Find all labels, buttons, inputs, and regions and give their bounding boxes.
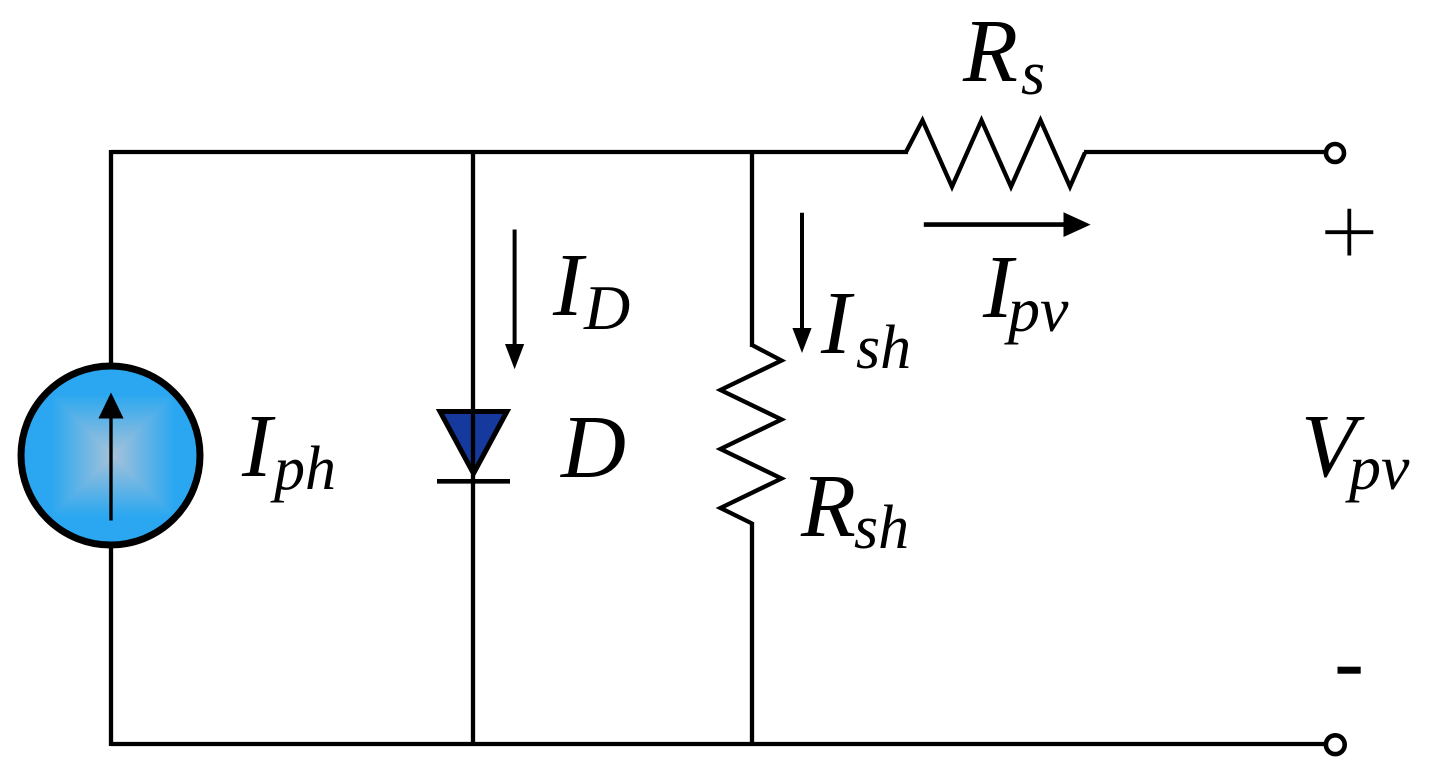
plus sign xyxy=(1325,209,1373,256)
wire diode branch vertical xyxy=(471,152,475,744)
arrow ID (current into diode) xyxy=(505,230,524,370)
wire left rail vertical xyxy=(109,150,113,746)
wire bottom horizontal xyxy=(111,742,1324,746)
wire shunt branch upper vertical xyxy=(750,152,754,347)
terminal + (top output node circle) xyxy=(1326,144,1344,162)
resistor Rsh (vertical zigzag) xyxy=(721,345,782,524)
label Ipv xyxy=(982,238,1069,345)
svg-text:sh: sh xyxy=(854,494,909,562)
wire top horizontal (right section from Rs to + terminal) xyxy=(1084,150,1324,154)
svg-text:pv: pv xyxy=(1345,432,1410,503)
svg-text:s: s xyxy=(1021,40,1045,108)
terminal - (bottom output node circle) xyxy=(1326,735,1345,754)
svg-text:I: I xyxy=(552,236,587,335)
svg-text:D: D xyxy=(559,398,626,497)
svg-text:sh: sh xyxy=(856,314,911,382)
svg-text:I: I xyxy=(241,397,276,496)
wire shunt branch lower vertical xyxy=(750,522,754,744)
label ID xyxy=(552,236,630,343)
svg-text:R: R xyxy=(800,457,856,556)
label Iph xyxy=(241,397,336,503)
svg-text:D: D xyxy=(583,272,630,343)
label Rsh xyxy=(800,457,909,562)
resistor Rs (horizontal zigzag) xyxy=(906,120,1085,186)
svg-text:ph: ph xyxy=(270,435,336,503)
svg-text:I: I xyxy=(820,274,855,373)
arrow Ipv (output current, pointing right) xyxy=(924,212,1091,237)
arrow Ish (current into shunt resistor) xyxy=(792,213,811,353)
label Vpv xyxy=(1301,397,1410,503)
label Ish xyxy=(820,274,911,382)
label Rs xyxy=(962,2,1045,108)
svg-text:pv: pv xyxy=(1004,274,1069,345)
svg-text:R: R xyxy=(962,2,1018,101)
current source Iph (circle with square path-gradient fill and up arrow) xyxy=(21,366,200,545)
minus sign xyxy=(1338,667,1361,674)
diode D (filled triangle with cathode bar) xyxy=(437,412,510,482)
wire top horizontal (left section from left rail to Rs) xyxy=(111,150,908,154)
